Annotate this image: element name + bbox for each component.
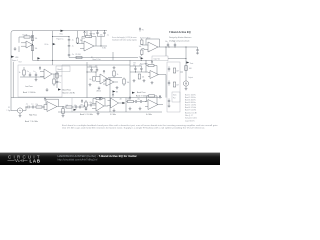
svg-text:1u: 1u bbox=[59, 82, 61, 84]
power arrow hp bbox=[44, 97, 46, 100]
power arrow band6c bbox=[129, 97, 131, 100]
svg-text:3.2 kHz: 3.2 kHz bbox=[110, 114, 116, 116]
node flag band3 bbox=[113, 90, 116, 92]
svg-text:10k: 10k bbox=[139, 56, 142, 58]
op-amp U11 bbox=[106, 78, 114, 86]
capacitor C28 bbox=[56, 81, 58, 84]
wire band1 top bbox=[98, 30, 107, 32]
node flag band3 out bbox=[132, 92, 135, 94]
node flag VEE bbox=[11, 56, 14, 58]
svg-text:.1u: .1u bbox=[26, 104, 28, 106]
svg-text:V1: V1 bbox=[8, 107, 10, 109]
node flag B1in bbox=[53, 43, 56, 45]
wire parallel rail bbox=[12, 62, 14, 98]
resistor R12 bbox=[53, 79, 55, 84]
svg-text:Band 1 / 100 Hz: Band 1 / 100 Hz bbox=[23, 92, 36, 94]
resistor R8 load bbox=[185, 66, 187, 71]
resistor R26 bbox=[123, 79, 125, 84]
capacitor C6 bbox=[167, 44, 169, 47]
capacitor C14 bbox=[90, 68, 92, 71]
resistor R18 bbox=[62, 109, 64, 114]
svg-text:10k: 10k bbox=[139, 46, 142, 48]
logo wire glyph bbox=[8, 159, 28, 162]
svg-text:LAB: LAB bbox=[30, 159, 41, 164]
svg-text:.02u: .02u bbox=[133, 64, 136, 66]
svg-text:.1u: .1u bbox=[33, 71, 35, 73]
power arrow band1 bbox=[39, 67, 41, 70]
ground G16 bbox=[139, 107, 142, 110]
svg-text:Figure 3: Figure 3 bbox=[140, 64, 146, 66]
node flag row2 bbox=[74, 109, 77, 111]
capacitor C7 bbox=[174, 44, 176, 47]
wire row boundary bbox=[11, 97, 162, 99]
wire vertical x113 bbox=[112, 52, 114, 60]
resistor R5 bbox=[76, 56, 82, 58]
capacitor C3 bbox=[96, 32, 98, 35]
capacitor C20 bbox=[32, 106, 33, 109]
op-amp U6 bbox=[150, 71, 159, 79]
wire band2 drop bbox=[56, 72, 58, 88]
power arrow band5 bbox=[81, 100, 83, 103]
svg-text:Figure 1a: Figure 1a bbox=[57, 39, 64, 41]
box small right bbox=[172, 92, 180, 102]
svg-text:Band 5: 1.6 kHz: Band 5: 1.6 kHz bbox=[185, 105, 196, 107]
capacitor C17 bbox=[134, 67, 136, 70]
node flag band2 bbox=[58, 88, 61, 90]
svg-text:.1u: .1u bbox=[71, 46, 73, 48]
svg-text:Band 5 / 1.6 kHz: Band 5 / 1.6 kHz bbox=[80, 114, 93, 116]
box input Vin bbox=[152, 56, 168, 61]
box filter column right bbox=[167, 62, 180, 112]
wire block2 top bbox=[87, 67, 100, 82]
svg-text:600: 600 bbox=[189, 68, 192, 70]
resistor R14 bbox=[113, 71, 115, 76]
svg-text:HARRISON HUNTER (Kerbo) - 7-Ba: HARRISON HUNTER (Kerbo) - 7-Band Active … bbox=[58, 154, 138, 158]
ground G15 bbox=[129, 107, 132, 110]
svg-text:Band 2: 200 Hz: Band 2: 200 Hz bbox=[185, 97, 196, 99]
ground G14 bbox=[85, 107, 88, 111]
svg-text:4k7: 4k7 bbox=[176, 70, 179, 72]
svg-text:.2u: .2u bbox=[72, 54, 74, 56]
wire block2 border bbox=[86, 62, 88, 98]
svg-text:.02u: .02u bbox=[74, 105, 77, 107]
ground G9 bbox=[89, 83, 92, 86]
resistor R1 bbox=[24, 36, 30, 38]
svg-text:B3: B3 bbox=[134, 62, 136, 64]
capacitor C10 bbox=[168, 82, 170, 85]
ground G3 bbox=[196, 53, 199, 55]
op-amp U8 bbox=[96, 101, 104, 111]
box band1 filter bbox=[18, 65, 62, 97]
wire block3 border bbox=[129, 60, 131, 97]
capacitor C15 bbox=[96, 68, 98, 71]
svg-text:Caps: film 5%: Caps: film 5% bbox=[185, 120, 195, 122]
ground G8 bbox=[46, 88, 49, 92]
capacitor C18 bbox=[140, 67, 142, 70]
svg-text:High Pass: High Pass bbox=[29, 114, 37, 116]
resistor R4 bbox=[76, 38, 78, 43]
wire row2 border bbox=[110, 98, 126, 112]
svg-text:1k: 1k bbox=[117, 74, 119, 76]
svg-text:10k: 10k bbox=[127, 82, 130, 84]
ground G18 bbox=[113, 109, 116, 112]
capacitor C21 bbox=[90, 104, 91, 107]
svg-text:Band Pass: Band Pass bbox=[137, 92, 146, 94]
svg-text:10k: 10k bbox=[35, 48, 38, 50]
svg-text:.05u: .05u bbox=[89, 65, 92, 67]
ground G12 bbox=[19, 116, 22, 118]
svg-text:8k2: 8k2 bbox=[81, 104, 84, 106]
resistor R22 feedback band6 bbox=[149, 95, 155, 97]
svg-text:To B1: To B1 bbox=[102, 48, 106, 50]
wire bus 2 bbox=[62, 64, 130, 66]
svg-text:1 Vpp: 1 Vpp bbox=[7, 110, 11, 112]
wire bus 1 bbox=[33, 59, 153, 61]
capacitor C24 bbox=[75, 106, 76, 109]
resistor R23 feedback band5 bbox=[96, 97, 102, 99]
svg-text:7-Band Active EQ: 7-Band Active EQ bbox=[169, 30, 191, 34]
ground G17 bbox=[97, 111, 100, 115]
svg-text:15k: 15k bbox=[36, 104, 39, 106]
svg-text:Figure 1: Figure 1 bbox=[12, 60, 18, 62]
svg-text:http://circuitlab.com/c4vh7s8k: http://circuitlab.com/c4vh7s8kq2mf bbox=[58, 158, 98, 162]
svg-text:Band 2 / 200 Hz: Band 2 / 200 Hz bbox=[63, 93, 76, 95]
svg-text:.05u: .05u bbox=[95, 65, 98, 67]
resistor R15 bbox=[138, 74, 140, 79]
svg-text:10k: 10k bbox=[35, 38, 38, 40]
ground G20 bbox=[113, 66, 116, 69]
svg-text:Band 7 / 6.4 kHz: Band 7 / 6.4 kHz bbox=[25, 121, 38, 123]
svg-text:.1u: .1u bbox=[173, 41, 175, 43]
node flag bus A bbox=[37, 57, 40, 59]
ground G7 bbox=[35, 77, 38, 81]
svg-text:+: + bbox=[27, 47, 28, 49]
op-amp U2 bbox=[84, 41, 94, 51]
power VCC arrow summing bbox=[139, 28, 141, 32]
svg-text:Band Pass: Band Pass bbox=[63, 90, 72, 92]
resistor R20 bbox=[85, 102, 87, 107]
svg-text:.1u: .1u bbox=[27, 71, 29, 73]
svg-text:Band 6: 3.2 kHz: Band 6: 3.2 kHz bbox=[185, 107, 196, 109]
source V1 bbox=[17, 108, 22, 113]
svg-text:10k: 10k bbox=[127, 99, 130, 101]
node flag bus B bbox=[141, 57, 144, 59]
ground G11 bbox=[133, 79, 136, 82]
svg-text:Band 2: Band 2 bbox=[58, 69, 63, 71]
box band2 input bbox=[56, 66, 70, 72]
resistor R21 bbox=[127, 100, 133, 102]
svg-text:10k: 10k bbox=[59, 76, 62, 78]
op-amp U1 bbox=[26, 41, 33, 48]
capacitor C13 bbox=[35, 73, 37, 76]
capacitor C1 bbox=[68, 38, 70, 41]
resistor R11 bbox=[23, 70, 25, 75]
resistor R19 bbox=[66, 106, 72, 108]
svg-text:B1 In: B1 In bbox=[45, 44, 49, 46]
wire band1 lower bbox=[69, 57, 138, 59]
ground G19 bbox=[145, 60, 148, 65]
svg-text:.05u: .05u bbox=[89, 102, 92, 104]
ground G6 bbox=[168, 104, 171, 108]
svg-text:6k8: 6k8 bbox=[66, 105, 69, 107]
svg-text:.1u: .1u bbox=[31, 104, 33, 106]
resistor R27 feedback bbox=[86, 35, 92, 37]
box high pass border bbox=[71, 98, 73, 112]
svg-text:10k: 10k bbox=[142, 77, 145, 79]
op-amp U7 bbox=[47, 102, 57, 112]
svg-text:R5 3k3: R5 3k3 bbox=[76, 54, 81, 56]
svg-text:LM324: LM324 bbox=[96, 90, 101, 92]
resistor R17 bbox=[36, 106, 42, 108]
svg-text:VEE: VEE bbox=[15, 57, 18, 59]
svg-text:Low Pass: Low Pass bbox=[25, 86, 33, 88]
resistor R2 bbox=[31, 36, 33, 41]
node flag Vout bbox=[186, 61, 189, 63]
op-amp U10 bbox=[148, 100, 158, 110]
ground G1 bbox=[14, 47, 17, 51]
capacitor C9 bbox=[168, 68, 170, 71]
wire row2 bottom bbox=[58, 111, 162, 113]
svg-text:B3: B3 bbox=[116, 91, 118, 93]
power arrow band3 bbox=[151, 61, 153, 64]
svg-text:6.4 kHz: 6.4 kHz bbox=[146, 114, 152, 116]
svg-text:4k7: 4k7 bbox=[176, 84, 179, 86]
op-amp U9 bbox=[111, 98, 119, 108]
svg-text:10u: 10u bbox=[165, 41, 168, 43]
resistor R16 feedback band3 bbox=[148, 64, 154, 66]
svg-text:R1 1M: R1 1M bbox=[23, 34, 28, 36]
wire top power rail bbox=[11, 31, 98, 111]
wire lp bbox=[20, 76, 44, 78]
svg-text:Band 1: 100 Hz: Band 1: 100 Hz bbox=[185, 95, 196, 97]
svg-text:B1: B1 bbox=[91, 57, 93, 59]
op-amp U4 bbox=[44, 69, 52, 79]
power arrow band2 bbox=[103, 70, 105, 73]
wire vertical x32 bbox=[32, 31, 34, 61]
svg-text:Design by Hunter Harrison: Design by Hunter Harrison bbox=[169, 36, 191, 39]
capacitor C4 bbox=[103, 32, 105, 35]
resistor R10 bbox=[173, 82, 175, 87]
power arrow band6b bbox=[159, 95, 161, 98]
junction dots bbox=[26, 30, 187, 107]
capacitor C12 bbox=[29, 73, 31, 76]
resistor R9 bbox=[173, 68, 175, 73]
wire right top bbox=[166, 47, 198, 81]
capacitor C19 bbox=[28, 106, 29, 109]
resistor R6 bbox=[141, 40, 143, 44]
resistor R7 bbox=[141, 50, 143, 54]
ground G21 bbox=[98, 87, 101, 90]
power arrow band6a bbox=[112, 93, 114, 96]
wire row2 bbox=[62, 106, 66, 108]
node flag row2b bbox=[122, 102, 125, 104]
capacitor C23 bbox=[140, 100, 141, 103]
resistor R3 bbox=[31, 46, 33, 51]
svg-text:.1u: .1u bbox=[71, 40, 73, 42]
capacitor C22 bbox=[135, 100, 136, 103]
node flag VCC on rail bbox=[61, 30, 64, 32]
ground pwr bbox=[90, 31, 93, 35]
op-amp U5 bbox=[100, 74, 108, 84]
svg-text:Gain: Gain bbox=[173, 95, 176, 97]
wire vertical x52 bbox=[52, 31, 54, 65]
svg-text:Band 7: 6.4 kHz: Band 7: 6.4 kHz bbox=[185, 110, 196, 112]
svg-text:1k: 1k bbox=[19, 72, 21, 74]
capacitor C11 bbox=[168, 100, 170, 103]
wire vertical x87 bbox=[86, 31, 88, 36]
svg-text:.1u: .1u bbox=[107, 34, 109, 36]
wire band1 input bbox=[53, 36, 70, 38]
wire feedback loop bbox=[146, 39, 166, 56]
power arrow band5 bbox=[99, 97, 101, 100]
capacitor C8 bbox=[196, 49, 198, 52]
wire block4 top bbox=[130, 66, 148, 72]
wire block3 bbox=[108, 77, 122, 79]
ground G13 bbox=[62, 116, 65, 118]
svg-text:.05u: .05u bbox=[100, 34, 103, 36]
wire output bbox=[180, 71, 183, 73]
svg-text:Band 4: 800 Hz: Band 4: 800 Hz bbox=[185, 102, 196, 104]
wire hp input bbox=[23, 107, 28, 111]
ground G5 bbox=[185, 89, 188, 91]
svg-text:+: + bbox=[149, 50, 150, 52]
ground G10 bbox=[143, 79, 146, 82]
ground G22 bbox=[151, 81, 154, 84]
svg-text:Band 3: 400 Hz: Band 3: 400 Hz bbox=[185, 100, 196, 102]
resistor R25 bbox=[56, 73, 58, 78]
capacitor C2 bbox=[68, 44, 70, 47]
svg-text:15k: 15k bbox=[89, 79, 92, 81]
capacitor C25 bbox=[79, 106, 80, 109]
power +9V arrow bbox=[84, 31, 86, 36]
resistor R13 bbox=[93, 77, 95, 82]
capacitor C5 bbox=[68, 54, 70, 57]
ground G23 bbox=[116, 86, 119, 89]
svg-text:.01u: .01u bbox=[137, 98, 140, 100]
